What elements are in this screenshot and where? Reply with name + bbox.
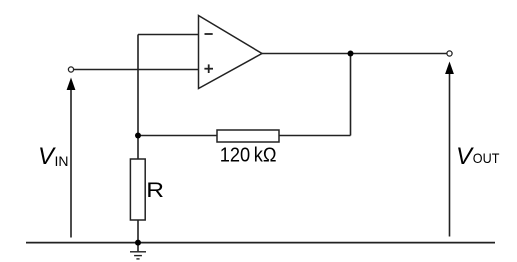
svg-text:V: V [456,143,474,170]
svg-text:V: V [38,143,56,170]
svg-text:R: R [146,178,164,202]
svg-text:IN: IN [55,153,69,169]
svg-text:OUT: OUT [473,150,500,166]
svg-text:120 kΩ: 120 kΩ [220,145,277,167]
